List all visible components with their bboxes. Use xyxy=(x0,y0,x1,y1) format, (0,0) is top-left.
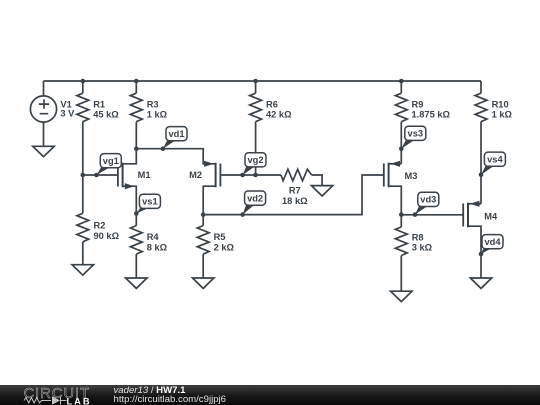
svg-text:R8: R8 xyxy=(412,232,424,242)
wire M2 drain down to R5 xyxy=(203,186,215,225)
wire R2 bottom lead to ground xyxy=(82,242,84,265)
svg-text:M1: M1 xyxy=(138,170,151,180)
resistor R1 xyxy=(77,93,89,122)
junction vd3 node / R8 xyxy=(399,212,404,217)
wire vd2 net: R5/M2 drain to M3 gate xyxy=(203,175,384,215)
node flag vs1 xyxy=(134,211,139,216)
voltage source V1 3V xyxy=(30,96,56,122)
svg-text:45 kΩ: 45 kΩ xyxy=(93,110,119,120)
svg-text:M4: M4 xyxy=(484,211,498,221)
resistor R8 xyxy=(395,227,407,256)
junction vg1 node xyxy=(81,173,86,178)
svg-text:8 kΩ: 8 kΩ xyxy=(147,242,168,252)
junction vd2 node / R5 xyxy=(201,212,206,217)
junction top rail / R3 xyxy=(134,79,139,84)
svg-text:vd4: vd4 xyxy=(484,237,501,247)
node flag vg1 xyxy=(94,173,99,178)
resistor R3 xyxy=(130,93,142,122)
transistor M3 (gate left, arrow on top lead) xyxy=(384,161,402,188)
wire M4 drain down to ground (vd4 net) xyxy=(468,226,481,278)
svg-text:R2: R2 xyxy=(94,221,106,231)
svg-text:42 kΩ: 42 kΩ xyxy=(266,110,292,120)
wire M1 source down to R4 xyxy=(123,186,137,225)
resistor R9 xyxy=(395,93,407,122)
svg-text:R5: R5 xyxy=(214,232,226,242)
ground under R4 xyxy=(126,278,147,288)
resistor R2 xyxy=(77,213,89,242)
svg-text:1 kΩ: 1 kΩ xyxy=(147,110,168,120)
resistor R7 xyxy=(281,169,312,181)
wire V1 bottom lead to ground xyxy=(43,122,45,146)
svg-text:M2: M2 xyxy=(189,170,202,180)
junction top rail / R9 xyxy=(399,79,404,84)
svg-text:1 kΩ: 1 kΩ xyxy=(492,110,513,120)
junction top rail / R1 xyxy=(81,79,86,84)
svg-text:vs4: vs4 xyxy=(487,155,503,165)
wire R4 bottom lead to ground xyxy=(135,254,137,278)
ground right of R7 xyxy=(311,186,332,196)
wire R9 top lead xyxy=(400,81,402,93)
transistor M1 (NMOS, gate left) xyxy=(118,163,134,190)
svg-text:R4: R4 xyxy=(147,232,160,242)
svg-text:1.875 kΩ: 1.875 kΩ xyxy=(412,110,451,120)
ground under R2 xyxy=(72,265,93,275)
wire R8 bottom lead to ground xyxy=(400,256,402,292)
wire R10 top lead xyxy=(480,81,482,93)
wire R1 top lead xyxy=(82,81,84,93)
ground under R5 xyxy=(193,278,214,288)
wire R9 bottom to M3 source (vs3 net) xyxy=(400,122,402,164)
svg-text:vd2: vd2 xyxy=(247,193,263,203)
wire R6 top lead xyxy=(255,81,257,93)
node flag vs3 xyxy=(399,146,404,151)
svg-text:vd1: vd1 xyxy=(168,129,184,139)
transistor M2 (gate right, arrow on top lead) xyxy=(204,161,220,188)
wire R1 bottom to vg1 node xyxy=(82,122,84,175)
junction top rail / R6 xyxy=(253,79,258,84)
wire vg1 net: R1/R2 to M1 gate xyxy=(83,174,118,176)
ground under V1 xyxy=(33,146,54,156)
svg-text:90 kΩ: 90 kΩ xyxy=(94,231,120,241)
wire vg2 net: M2 gate to R7 xyxy=(220,174,281,176)
wire top supply rail xyxy=(44,80,482,82)
node flag vd4 xyxy=(479,252,484,257)
ground under M4 drain (vd4) xyxy=(470,278,491,288)
resistor R6 xyxy=(250,93,262,122)
CircuitLab logo xyxy=(0,385,100,405)
wire R6 bottom to vg2 node xyxy=(255,122,257,175)
svg-text:R7: R7 xyxy=(289,186,301,196)
wire R5 bottom lead to ground xyxy=(202,254,204,278)
wire R2 top lead xyxy=(82,175,84,213)
svg-text:R6: R6 xyxy=(266,99,278,109)
node flag vg2 xyxy=(240,173,245,178)
wire R3 bottom to vd1 node xyxy=(135,122,137,149)
svg-text:R1: R1 xyxy=(93,99,105,109)
node flag vd1 xyxy=(161,146,166,151)
ground under R8 xyxy=(391,291,412,301)
node flag vd2 xyxy=(240,212,245,217)
wire vd3 net: M3 drain to M4 gate xyxy=(401,214,463,216)
svg-text:vs3: vs3 xyxy=(408,129,424,139)
resistor R10 xyxy=(475,93,487,122)
svg-text:3 kΩ: 3 kΩ xyxy=(412,243,433,253)
node flag vs4 xyxy=(479,172,484,177)
svg-text:3 V: 3 V xyxy=(60,109,75,119)
svg-text:R3: R3 xyxy=(147,99,159,109)
wire V1 top lead xyxy=(43,81,45,96)
junction vd1 node xyxy=(134,146,139,151)
resistor R5 xyxy=(197,226,209,255)
svg-text:M3: M3 xyxy=(405,171,418,181)
wire R10 bottom to M4 source (vs4 net) xyxy=(480,122,482,204)
wire M1 drain to vd1 xyxy=(123,149,137,164)
wire R3 top lead xyxy=(135,81,137,93)
svg-text:vs1: vs1 xyxy=(142,197,158,207)
footer credit text xyxy=(114,386,227,405)
svg-text:vg1: vg1 xyxy=(103,156,119,166)
junction vg2 node / R6 xyxy=(253,173,258,178)
svg-text:vg2: vg2 xyxy=(247,155,263,165)
transistor M4 (gate left, arrow on top lead) xyxy=(463,201,481,228)
wire vd1 net to M2 source xyxy=(136,149,215,164)
wire M3 drain down to R8 xyxy=(389,186,402,227)
svg-text:R10: R10 xyxy=(492,99,509,109)
svg-text:R9: R9 xyxy=(412,99,424,109)
svg-text:18 kΩ: 18 kΩ xyxy=(282,196,308,206)
resistor R4 xyxy=(130,226,142,255)
wire R7 right lead to ground xyxy=(312,175,323,186)
svg-text:2 kΩ: 2 kΩ xyxy=(214,242,235,252)
svg-text:LAB: LAB xyxy=(67,396,92,405)
svg-text:vd3: vd3 xyxy=(420,195,436,205)
node flag vd3 xyxy=(413,212,418,217)
